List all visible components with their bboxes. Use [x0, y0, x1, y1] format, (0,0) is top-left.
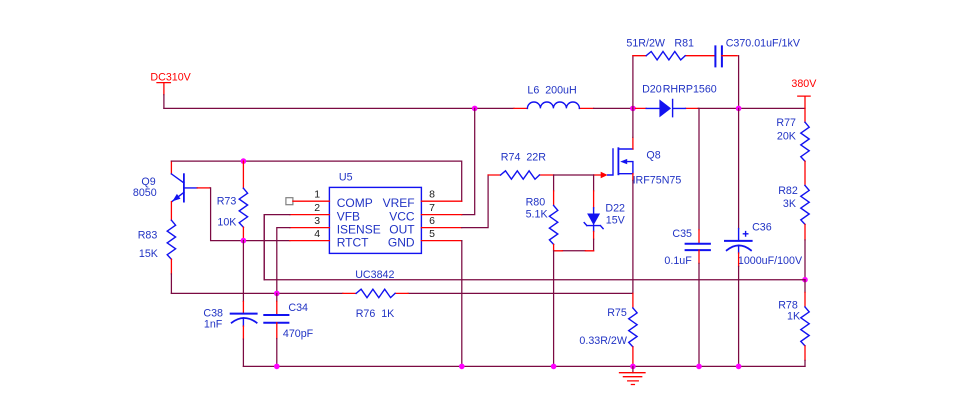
- node ground R75: [630, 364, 636, 370]
- pin 6 OUT: [421, 215, 461, 228]
- power port DC310V: [150, 71, 191, 108]
- svg-text:0.33R/2W: 0.33R/2W: [579, 335, 627, 347]
- capacitor C35: [664, 108, 710, 366]
- node ground C36: [736, 364, 742, 370]
- svg-text:D20: D20: [642, 83, 662, 95]
- svg-text:R77: R77: [776, 117, 796, 129]
- power port 380V: [791, 78, 817, 122]
- svg-text:C35: C35: [672, 228, 692, 240]
- capacitor C34: [264, 293, 313, 366]
- node ground GND pin: [459, 364, 465, 370]
- wire GND riser: [461, 241, 463, 367]
- wire snubber right riser: [738, 56, 740, 109]
- svg-text:VCC: VCC: [389, 210, 415, 224]
- svg-text:C34: C34: [288, 302, 308, 314]
- diode D20: [635, 83, 716, 117]
- wire rail A feedback: [264, 215, 805, 280]
- node R73 top junction: [241, 158, 247, 164]
- svg-text:R75: R75: [607, 307, 627, 319]
- svg-text:1nF: 1nF: [204, 318, 223, 330]
- svg-text:VFB: VFB: [337, 210, 360, 224]
- node ground C35: [696, 364, 702, 370]
- pin 5 GND: [421, 228, 461, 241]
- wire top rail DC310V to L6: [164, 107, 514, 109]
- svg-text:ISENSE: ISENSE: [337, 223, 381, 237]
- capacitor C36: [725, 108, 803, 366]
- wire ground rail: [243, 365, 805, 367]
- svg-text:Q8: Q8: [646, 149, 660, 161]
- svg-text:R78: R78: [778, 299, 798, 311]
- svg-text:470pF: 470pF: [283, 328, 314, 340]
- node ISENSE C34 junction: [274, 291, 280, 297]
- resistor R83: [138, 220, 176, 293]
- svg-text:OUT: OUT: [389, 223, 415, 237]
- wire L6 to drain node: [594, 107, 636, 109]
- resistor R76: [343, 289, 408, 320]
- svg-text:U5: U5: [339, 171, 353, 183]
- gate arrow: [601, 172, 608, 178]
- svg-text:20K: 20K: [777, 130, 797, 142]
- svg-text:COMP: COMP: [337, 196, 373, 210]
- svg-text:D22: D22: [605, 202, 625, 214]
- svg-text:2: 2: [314, 202, 320, 214]
- capacitor C37: [715, 37, 800, 66]
- svg-text:15K: 15K: [139, 248, 159, 260]
- wire VREF rail: [171, 161, 461, 201]
- pin 7 VCC: [421, 202, 461, 215]
- svg-text:DC310V: DC310V: [150, 71, 191, 83]
- svg-text:380V: 380V: [791, 78, 817, 90]
- svg-text:R81: R81: [674, 38, 694, 50]
- resistor R74: [488, 151, 554, 179]
- svg-text:VREF: VREF: [383, 196, 415, 210]
- wire R80 D22 bottom link: [562, 250, 585, 252]
- resistor R81: [626, 38, 715, 60]
- svg-text:1: 1: [314, 189, 320, 201]
- svg-text:1000uF/100V: 1000uF/100V: [738, 255, 803, 267]
- resistor R77: [776, 117, 809, 185]
- wire gate: [554, 174, 594, 176]
- wire D20 to output node: [698, 107, 805, 109]
- zener D22: [584, 175, 625, 251]
- transistor Q8: [608, 137, 682, 186]
- svg-text:10K: 10K: [217, 216, 237, 228]
- svg-text:R83: R83: [138, 230, 158, 242]
- node drain junction: [630, 106, 636, 112]
- svg-text:RHRP1560: RHRP1560: [663, 83, 717, 95]
- svg-text:L6 200uH: L6 200uH: [527, 84, 576, 96]
- wire OUT riser: [462, 175, 488, 228]
- svg-text:4: 4: [314, 228, 320, 240]
- svg-text:5: 5: [429, 228, 435, 240]
- svg-text:C36: C36: [752, 222, 772, 234]
- pin 4 RTCT: [290, 228, 330, 241]
- wire Q8 drain: [632, 108, 634, 137]
- svg-text:7: 7: [429, 202, 435, 214]
- svg-text:5.1K: 5.1K: [526, 208, 549, 220]
- pin 2 VFB: [290, 202, 330, 215]
- svg-text:8050: 8050: [133, 187, 157, 199]
- wire rail B source: [171, 292, 343, 294]
- resistor R75: [579, 293, 637, 366]
- capacitor C38: [203, 241, 256, 367]
- node ground R80: [551, 364, 557, 370]
- svg-text:R76 1K: R76 1K: [356, 308, 395, 320]
- pin 3 ISENSE: [290, 215, 330, 228]
- wire snubber left riser: [632, 56, 634, 109]
- wire R80 ground riser: [553, 251, 555, 367]
- wire ISENSE riser: [277, 228, 290, 294]
- pin 8 VREF: [421, 189, 461, 202]
- wire Q8 source down: [632, 180, 634, 293]
- wire VFB riser: [264, 215, 290, 280]
- pin 1 COMP: [286, 189, 330, 205]
- node output junction: [736, 106, 742, 112]
- svg-text:6: 6: [429, 215, 435, 227]
- ground symbol: [620, 366, 646, 384]
- wire Q9 base to RTCT: [210, 188, 290, 241]
- svg-text:3: 3: [314, 215, 320, 227]
- svg-text:1K: 1K: [787, 311, 801, 323]
- svg-text:51R/2W: 51R/2W: [626, 38, 666, 50]
- inductor L6: [514, 84, 594, 108]
- node VCC tap junction: [472, 106, 478, 112]
- svg-text:8: 8: [429, 189, 435, 201]
- svg-text:GND: GND: [388, 236, 415, 250]
- wire VCC riser: [462, 108, 475, 214]
- resistor R80: [526, 175, 558, 251]
- svg-text:15V: 15V: [606, 215, 626, 227]
- svg-text:RTCT: RTCT: [337, 236, 369, 250]
- op-amp U5 UC3842: [329, 171, 421, 281]
- resistor R82: [778, 185, 809, 280]
- svg-text:IRF75N75: IRF75N75: [633, 174, 682, 186]
- node feedback junction: [802, 277, 808, 283]
- svg-text:3K: 3K: [783, 198, 797, 210]
- svg-text:R80: R80: [526, 197, 546, 209]
- svg-text:R74 22R: R74 22R: [501, 151, 546, 163]
- svg-text:R73: R73: [217, 196, 237, 208]
- node ground C34: [274, 364, 280, 370]
- transistor Q9: [133, 161, 210, 220]
- node RTCT junction: [241, 238, 247, 244]
- svg-text:C370.01uF/1kV: C370.01uF/1kV: [726, 37, 801, 49]
- svg-text:R82: R82: [778, 185, 798, 197]
- resistor R73: [217, 161, 248, 241]
- resistor R78: [778, 280, 809, 367]
- svg-text:0.1uF: 0.1uF: [664, 255, 692, 267]
